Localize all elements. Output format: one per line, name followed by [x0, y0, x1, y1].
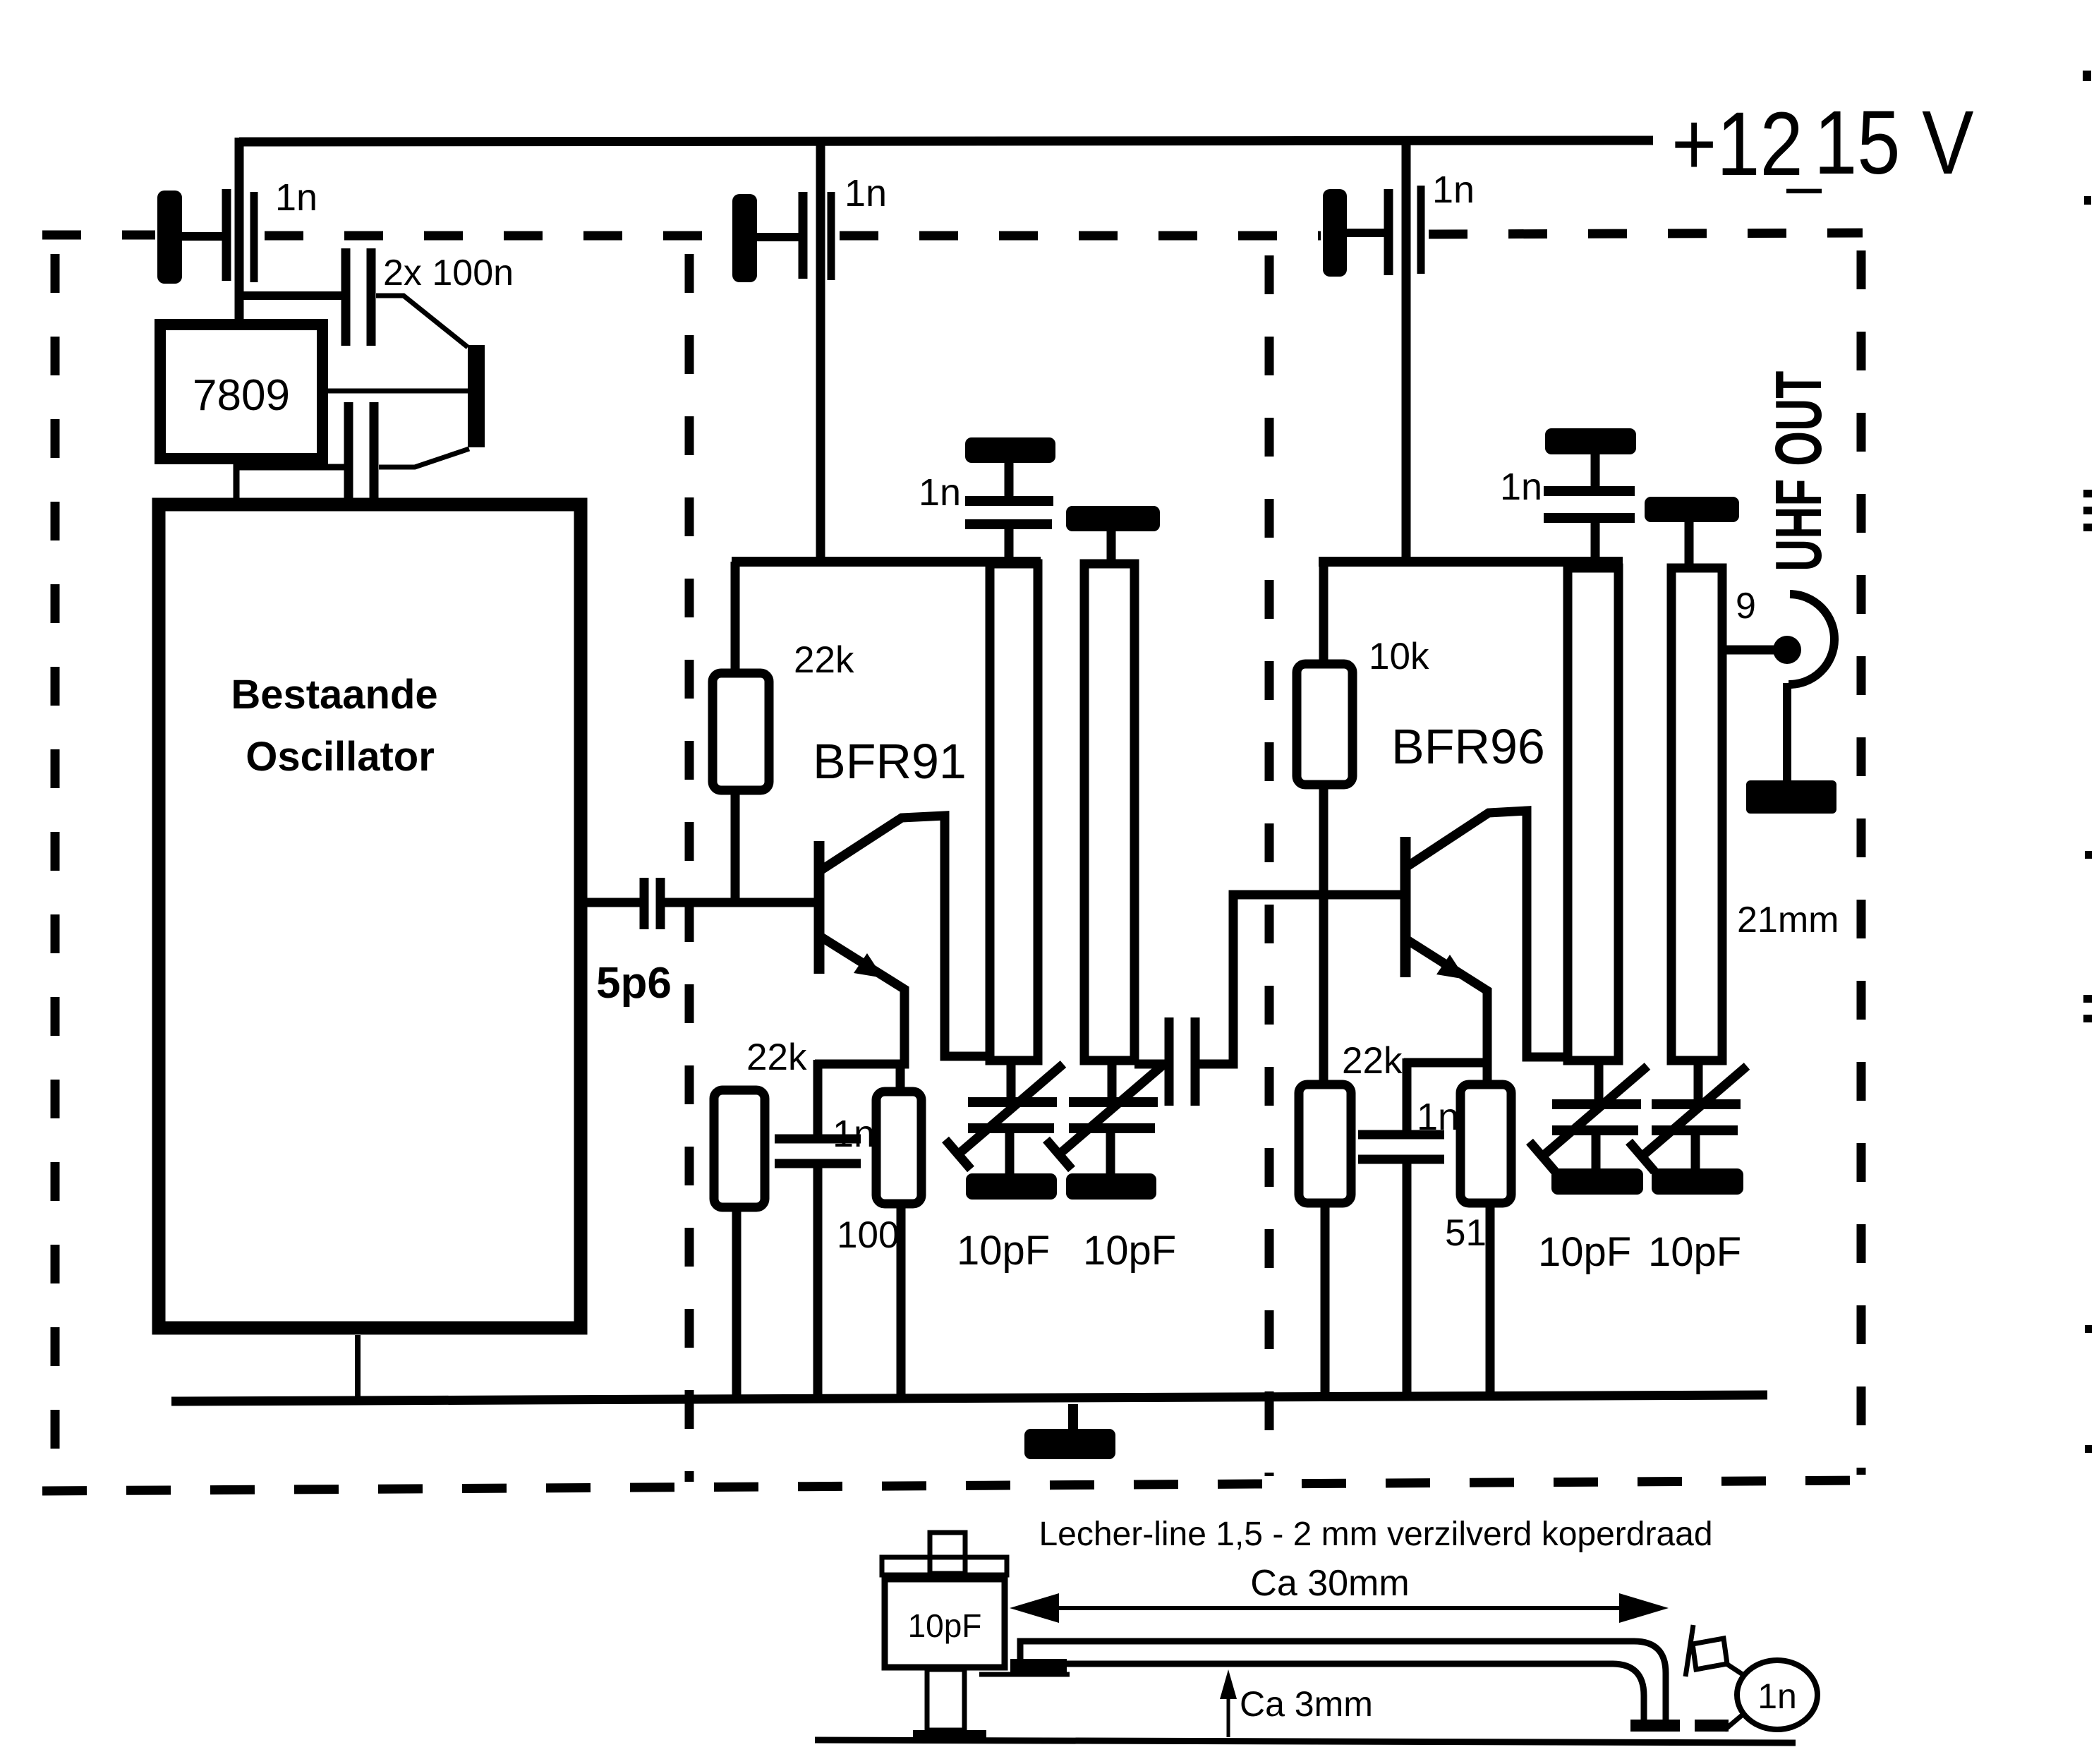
svg-text:10pF: 10pF — [1648, 1229, 1741, 1275]
node lecher right solder pad — [1630, 1720, 1680, 1732]
svg-text:10pF: 10pF — [1083, 1228, 1176, 1274]
svg-text:10pF: 10pF — [957, 1228, 1050, 1274]
capacitor CT4 trimmer plate A — [1652, 1099, 1741, 1109]
ground bar at output — [1746, 780, 1836, 814]
capacitor TC3 plate B — [1544, 513, 1635, 523]
wire hook ground stem — [1783, 683, 1791, 783]
wire FT2 link — [757, 233, 804, 241]
wire shield box left dashed edge — [51, 254, 60, 1487]
transistor Q1 collector lead — [821, 816, 991, 1056]
svg-text:BFR96: BFR96 — [1391, 719, 1545, 774]
svg-text:10k: 10k — [1369, 636, 1429, 677]
capacitor C4 100n plate B — [367, 248, 376, 346]
wire dimension arrow 30mm — [1022, 1606, 1658, 1610]
svg-text:1n: 1n — [1500, 466, 1542, 508]
capacitor CT2 trimmer plate B — [1069, 1123, 1155, 1133]
capacitor detail pedestal — [927, 1669, 964, 1730]
wire lecher top conductor — [1020, 1641, 1666, 1723]
svg-text:Lecher-line 1,5 - 2 mm verzilv: Lecher-line 1,5 - 2 mm verzilverd koperd… — [1039, 1516, 1712, 1553]
capacitor C5 100n plate A — [344, 402, 353, 502]
wire emitter jog to C9 — [1404, 1058, 1487, 1068]
capacitor C9 plate B — [1358, 1155, 1444, 1164]
capacitor CT1 adjust arrow — [958, 1064, 1063, 1154]
svg-text:Oscillator: Oscillator — [246, 734, 435, 780]
capacitor CT2 adjust tail — [1046, 1140, 1072, 1169]
capacitor C7 plate B — [775, 1159, 861, 1168]
wire TC1 stem — [1005, 463, 1014, 497]
wire ground plane line — [815, 1740, 1796, 1743]
capacitor C1 1n plate — [250, 192, 258, 282]
capacitor T-cap TC3 1n body — [1545, 428, 1636, 454]
resistor R5 100 body — [876, 1092, 921, 1204]
wire R4 bottom lead — [1321, 1203, 1330, 1398]
wire C4 to ground electrode — [376, 296, 468, 347]
transistor Q2 collector lead — [1408, 811, 1572, 1057]
wire base feed Q1 — [664, 898, 818, 907]
wire TC1 to bus — [1005, 528, 1014, 563]
capacitor FT1 plate — [222, 189, 231, 281]
wire oscillator ground stem — [355, 1335, 361, 1401]
capacitor CT4 adjust arrow — [1642, 1066, 1747, 1156]
wire R3 top lead — [1319, 562, 1329, 662]
inductor L4 lecher line stage2 — [1671, 568, 1722, 1061]
wire internal shield wall 1 dashed — [685, 254, 694, 1482]
resistor R6 51 body — [1460, 1085, 1511, 1203]
wire oscillator RF output — [587, 898, 641, 907]
capacitor detail trimmer box — [885, 1579, 1005, 1667]
capacitor CT4 adjust tail — [1629, 1142, 1654, 1171]
transistor Q1 base bar — [814, 841, 825, 974]
svg-text:1n: 1n — [919, 471, 961, 514]
wire TC3 stem — [1591, 454, 1600, 488]
capacitor CT1 trimmer plate B — [968, 1123, 1054, 1133]
wire flag to 1n link — [1724, 1662, 1747, 1677]
node ground electrode bar — [468, 345, 485, 447]
wire internal shield wall 2 dashed — [1265, 255, 1274, 1476]
svg-text:10pF: 10pF — [1538, 1229, 1631, 1275]
capacitor CT2 trimmer plate A — [1069, 1097, 1158, 1107]
svg-text:10pF: 10pF — [908, 1607, 982, 1644]
wire TC4 stem to L4 — [1685, 522, 1694, 570]
svg-text:Ca 30mm: Ca 30mm — [1250, 1563, 1409, 1604]
capacitor TC1 plate B — [965, 519, 1052, 529]
capacitor CT3 trimmer top stem — [1594, 1058, 1604, 1101]
svg-text:Bestaande: Bestaande — [231, 672, 437, 718]
wire FT1 link — [182, 232, 223, 241]
wire 7809 input cap link — [235, 291, 341, 300]
wire C5 to ground electrode — [379, 449, 469, 467]
capacitor C6 5p6 plate A — [640, 878, 649, 929]
svg-text:2x 100n: 2x 100n — [383, 253, 514, 294]
wire shield box top dashed segment D — [1429, 233, 1863, 234]
node output junction dot — [1773, 636, 1801, 664]
wire TC2 stem to L2 — [1107, 531, 1116, 566]
capacitor C7 1n bypass top stem — [813, 1060, 823, 1136]
node +12_15V label (handwritten) — [1671, 92, 1974, 195]
capacitor C9 plate A — [1358, 1130, 1444, 1140]
capacitor CT1 trimmer plate A — [968, 1097, 1057, 1107]
svg-text:+12: +12 — [1671, 94, 1803, 195]
capacitor TC3 plate A — [1544, 486, 1635, 496]
wire R5 bottom lead — [897, 1204, 906, 1403]
wire shield box top dashed segment B — [265, 231, 731, 241]
ground chassis bar under CT4 — [1652, 1168, 1743, 1195]
transistor Q1 emitter arrow — [854, 953, 883, 978]
node lecher left solder pad — [1010, 1659, 1067, 1675]
wire shield box top dashed segment C — [840, 231, 1321, 241]
svg-text:22k: 22k — [1342, 1040, 1403, 1082]
resistor R3 10k body — [1297, 664, 1352, 785]
capacitor C3 1n plate — [1417, 186, 1425, 274]
capacitor C8 coupling plate A — [1165, 1017, 1174, 1106]
svg-text:UHF OUT: UHF OUT — [1762, 371, 1835, 572]
capacitor C9 1n bypass top stem — [1403, 1058, 1412, 1132]
capacitor CT3 trimmer plate A — [1552, 1099, 1641, 1109]
wire R6 bottom lead — [1486, 1203, 1495, 1397]
svg-text:21mm: 21mm — [1737, 900, 1839, 941]
capacitor detail 1n balloon — [1737, 1660, 1817, 1729]
svg-text:100: 100 — [837, 1214, 899, 1256]
svg-text:BFR91: BFR91 — [813, 734, 967, 789]
capacitor C6 5p6 plate B — [656, 878, 665, 929]
svg-text:1n: 1n — [275, 176, 317, 219]
wire output tap from L4 — [1722, 646, 1775, 655]
block oscillator box — [159, 505, 581, 1328]
capacitor T-cap TC1 1n body — [965, 437, 1055, 463]
capacitor detail trimmer screw — [930, 1533, 965, 1573]
capacitor CT3 adjust arrow — [1542, 1066, 1647, 1156]
capacitor CT1 trimmer top stem — [1007, 1058, 1016, 1101]
wire +12-15V supply rail — [239, 140, 1653, 142]
wire R1 top lead — [731, 562, 740, 670]
svg-text:9: 9 — [1736, 586, 1756, 627]
capacitor CT2 adjust arrow — [1059, 1064, 1164, 1154]
wire supply drop to stage 2 — [1402, 140, 1411, 564]
wire shield box right dashed edge — [1857, 250, 1866, 1475]
regulator U1 7809 box — [160, 325, 322, 459]
wire lecher bottom conductor — [1067, 1664, 1644, 1723]
wire shield box top dashed segment A — [42, 231, 155, 240]
svg-text:7809: 7809 — [193, 371, 290, 420]
inductor L1 lecher line stage1 — [990, 564, 1038, 1061]
wire pad to 1n link — [1724, 1711, 1747, 1730]
wire stage2 collector bus — [1319, 557, 1623, 567]
wire R1 bottom lead to base node — [731, 790, 740, 907]
transistor Q1 emitter lead — [815, 937, 904, 1064]
ground chassis bar under CT1 — [966, 1173, 1057, 1200]
wire output coupling hook — [1789, 594, 1834, 684]
capacitor feedthrough FT3 body — [1323, 189, 1347, 277]
wire supply drop to stage 1 — [816, 140, 825, 564]
capacitor CT1 adjust tail — [945, 1140, 971, 1169]
wire CT3 bottom stem — [1592, 1134, 1601, 1170]
svg-text:22k: 22k — [746, 1037, 807, 1078]
capacitor CT2 trimmer top stem — [1108, 1058, 1117, 1101]
wire 7809 output cap link — [236, 464, 344, 471]
wire C7 bottom stem — [813, 1164, 823, 1403]
wire 7809 output to oscillator — [234, 459, 240, 501]
capacitor CT3 trimmer plate B — [1552, 1125, 1638, 1135]
wire stage1 collector bus — [732, 557, 1041, 567]
capacitor feedthrough FT1 body — [157, 191, 182, 284]
wire C9 bottom stem — [1403, 1159, 1412, 1398]
wire R5 top stem — [896, 1060, 905, 1090]
wire ground bus — [171, 1395, 1767, 1401]
svg-text:1n: 1n — [1757, 1677, 1797, 1716]
svg-text:22k: 22k — [794, 639, 854, 681]
capacitor T-cap TC4 body — [1645, 497, 1739, 522]
resistor R1 22k body — [713, 673, 769, 790]
svg-text:15 V: 15 V — [1814, 92, 1974, 193]
inductor L2 lecher line stage1 — [1084, 564, 1134, 1061]
wire CT4 bottom stem — [1691, 1134, 1700, 1170]
wire CT2 bottom stem — [1106, 1132, 1115, 1175]
capacitor C8 coupling plate B — [1191, 1017, 1200, 1106]
svg-text:Ca 3mm: Ca 3mm — [1240, 1684, 1373, 1724]
transistor Q2 emitter lead — [1408, 941, 1487, 1083]
wire R3 bottom lead to base node — [1319, 785, 1329, 899]
wire R2 bottom lead — [732, 1207, 742, 1403]
wire dimension arrow 3mm — [1227, 1681, 1230, 1737]
transistor Q2 emitter arrow — [1436, 955, 1466, 979]
svg-text:1n: 1n — [1432, 169, 1475, 211]
capacitor T-cap TC2 body — [1066, 506, 1160, 531]
wire L2 to coupling cap — [1134, 1060, 1166, 1069]
capacitor FT2 plate — [799, 192, 808, 279]
capacitor detail feedthrough flag — [1693, 1638, 1727, 1669]
wire shield box bottom dashed edge — [42, 1480, 1868, 1491]
capacitor CT4 trimmer top stem — [1694, 1058, 1703, 1101]
capacitor detail pedestal foot — [913, 1730, 986, 1740]
wire supply drop to regulator — [235, 138, 244, 320]
capacitor CT3 adjust tail — [1530, 1142, 1555, 1171]
wire ground symbol stem — [1068, 1404, 1078, 1430]
capacitor C2 1n plate — [828, 192, 835, 280]
capacitor CT4 trimmer plate B — [1652, 1125, 1738, 1135]
wire coupling riser — [1199, 895, 1404, 1064]
wire pad link to box — [979, 1672, 1070, 1677]
wire CT1 bottom stem — [1005, 1132, 1015, 1175]
wire 7809 ground pin — [326, 389, 468, 394]
transistor Q2 base bar — [1400, 837, 1411, 977]
resistor R2 22k body — [714, 1090, 765, 1207]
capacitor C7 plate A — [775, 1135, 861, 1144]
svg-text:51: 51 — [1445, 1212, 1487, 1254]
svg-text:1n: 1n — [1417, 1096, 1459, 1138]
ground chassis bar under CT3 — [1551, 1168, 1643, 1195]
capacitor detail trimmer top plate — [882, 1557, 1007, 1575]
capacitor TC1 plate A — [965, 496, 1053, 506]
capacitor C4 100n plate A — [341, 248, 351, 346]
capacitor C5 100n plate B — [370, 402, 379, 502]
wire flag staff — [1686, 1625, 1693, 1677]
node scan artifacts right edge — [2083, 71, 2092, 1453]
resistor R4 22k body — [1299, 1085, 1351, 1203]
node UHF OUT label — [1762, 371, 1835, 572]
svg-text:1n: 1n — [833, 1113, 875, 1155]
wire FT3 link — [1347, 229, 1390, 237]
ground symbol bar — [1024, 1429, 1115, 1459]
wire R4 top lead — [1319, 895, 1329, 1087]
svg-text:5p6: 5p6 — [596, 959, 672, 1008]
inductor L3 lecher line stage2 — [1568, 568, 1618, 1061]
wire TC3 to bus — [1591, 522, 1600, 563]
ground chassis bar under CT2 — [1066, 1173, 1156, 1200]
svg-text:1n: 1n — [845, 172, 887, 215]
capacitor feedthrough FT2 body — [732, 194, 757, 282]
node bypass solder pad — [1695, 1720, 1729, 1732]
capacitor FT3 plate — [1384, 189, 1393, 275]
